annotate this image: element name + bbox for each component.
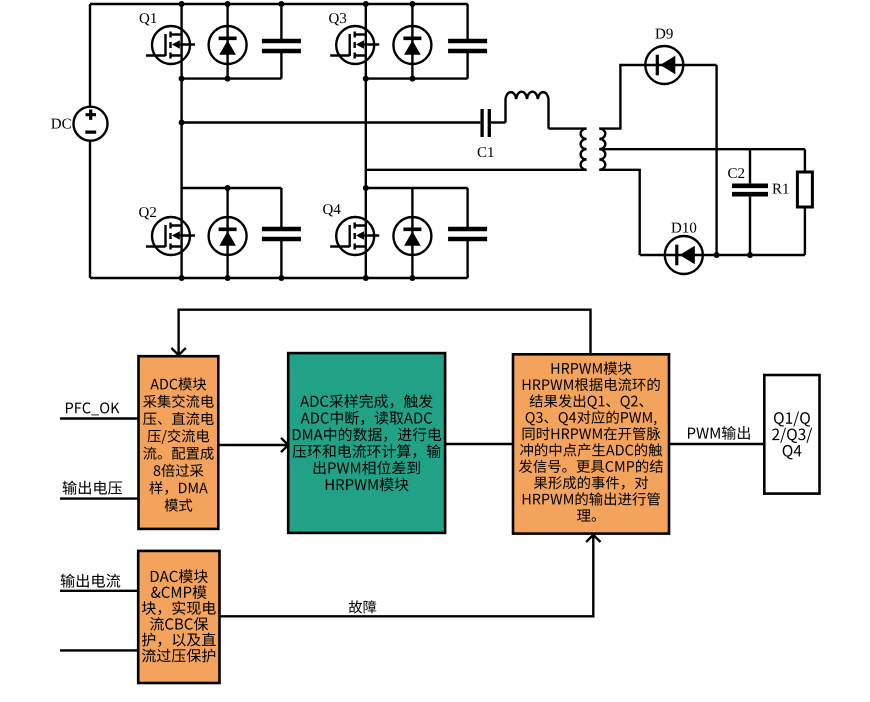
body diode of Q2 (209, 217, 247, 255)
wire left rail upper (89, 4, 91, 107)
block DAC CMP module (138, 551, 219, 683)
capacitor C2 (732, 186, 768, 194)
wire leg Q3-Q4 vertical (365, 4, 367, 278)
label output voltage (63, 481, 122, 495)
junction dots output rail (714, 252, 753, 258)
wire Q4 upper sub-rail (366, 187, 468, 189)
junction dot phase A (179, 120, 185, 126)
capacitor across Q2 (262, 229, 301, 239)
arrowhead into ADC block (171, 348, 185, 355)
capacitor C1 (482, 109, 489, 137)
diode D10 (665, 236, 703, 274)
resistor R1 (797, 172, 812, 207)
wire center tap (599, 148, 805, 150)
wire PFC_OK input (60, 417, 139, 419)
label C1 (478, 147, 494, 157)
wire C-Q4 branch (466, 188, 468, 278)
wire Q2 upper sub-rail (182, 187, 282, 189)
label Q2 (139, 207, 156, 219)
wire ADC to green block (218, 444, 288, 446)
label D10 (671, 223, 696, 233)
wire bottom rail (90, 277, 468, 279)
label D9 (655, 29, 672, 39)
capacitor across Q1 (262, 41, 301, 51)
inductor L1 (506, 92, 549, 129)
wire left rail lower (89, 141, 91, 279)
junction dots top rail (179, 1, 416, 7)
wire phase B to primary bottom (366, 169, 587, 171)
body diode of Q3 (393, 26, 431, 64)
wire phase A to C1 (182, 121, 481, 123)
wire secondary top to D9 (599, 65, 716, 129)
wire D9 output down (715, 65, 717, 255)
arrowhead into HRPWM bottom (586, 535, 600, 542)
wire top rail (90, 3, 468, 5)
resistor R1 branch (804, 149, 806, 255)
transistor Q3 (330, 26, 379, 64)
body diode of Q1 (209, 26, 247, 64)
wire lower input (60, 649, 138, 651)
wire C-Q1 branch (280, 4, 282, 79)
block ADC module (139, 356, 219, 529)
diode D9 (645, 46, 683, 84)
DC source V1 (74, 107, 108, 141)
wire D3 branch (411, 4, 413, 79)
label C2 (728, 168, 744, 178)
label PWM output (688, 426, 750, 440)
capacitor across Q4 (448, 229, 487, 239)
block HRPWM module (513, 354, 669, 533)
transistor Q1 (146, 26, 195, 64)
wire output bottom rail (640, 254, 805, 256)
label Q3 (329, 13, 346, 25)
transistor Q4 (330, 217, 379, 255)
junction dots Q2 Q4 sub-rails (225, 185, 369, 191)
label Q1 (140, 13, 157, 25)
wire Q1 lower sub-rail (182, 77, 282, 79)
wire C-Q2 branch (280, 188, 282, 278)
label DC (51, 119, 71, 129)
wire C-Q3 branch (466, 4, 468, 79)
feedback wire HRPWM to ADC (179, 310, 591, 355)
wire green block to HRPWM (445, 443, 513, 445)
wire leg Q1-Q2 vertical (180, 4, 182, 278)
capacitor C2 branch (749, 149, 751, 255)
wire Q3 lower sub-rail (366, 77, 468, 79)
body diode of Q4 (393, 217, 431, 255)
block ADC interrupt (green) (288, 353, 445, 533)
wire secondary bottom to D10 (599, 170, 639, 255)
wire inductor to transformer primary (549, 127, 587, 129)
block Q1/Q2/Q3/Q4 output (764, 375, 819, 494)
label Q4 (323, 204, 340, 216)
wire HRPWM to output block (669, 443, 764, 445)
transformer T1 secondary winding (599, 129, 605, 170)
label R1 (772, 184, 788, 194)
wire D2 branch (226, 188, 228, 278)
wire output current input (60, 590, 138, 592)
label PFC_OK (66, 402, 120, 415)
wire output voltage input (60, 497, 139, 499)
wire C1 to inductor (491, 121, 506, 123)
junction dots Q1 Q3 sub-rails (179, 76, 416, 82)
transformer T1 primary winding (581, 129, 587, 170)
capacitor across Q3 (448, 41, 487, 51)
arrowhead into green block (281, 438, 288, 452)
junction dots bottom rail (179, 275, 416, 281)
wire fault DAC to HRPWM (220, 535, 594, 616)
wire D1 branch (226, 4, 228, 79)
label output current (61, 574, 121, 588)
transistor Q2 (146, 217, 195, 255)
label fault (349, 600, 376, 613)
wire D4 branch (411, 188, 413, 278)
